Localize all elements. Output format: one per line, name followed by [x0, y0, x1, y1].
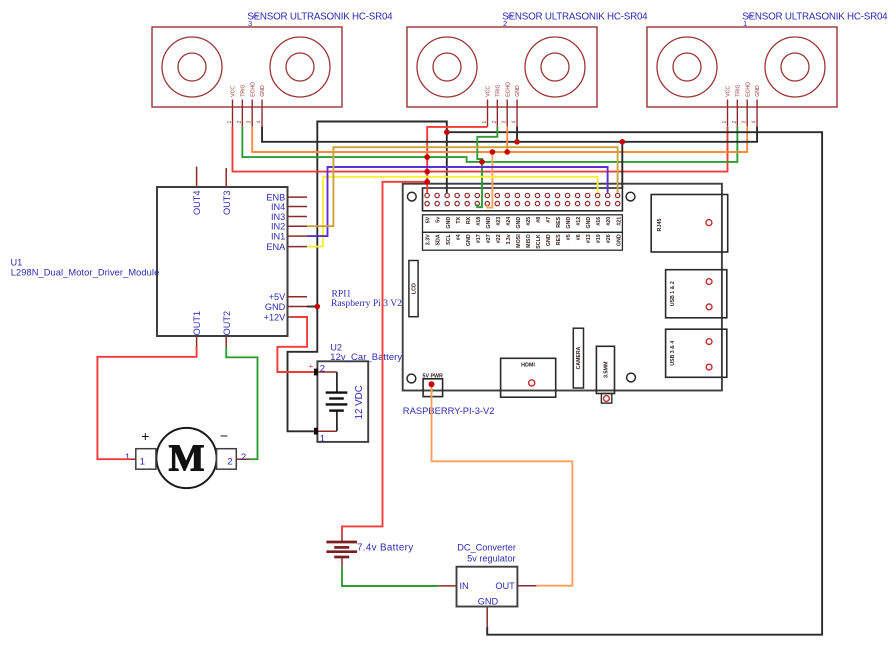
wire sensor2 GND drop: [516, 127, 518, 142]
svg-text:GND: GND: [265, 302, 286, 312]
svg-text:2: 2: [241, 452, 246, 463]
svg-text:#27: #27: [486, 234, 492, 243]
label title S2: [502, 11, 648, 28]
pin +5V of U1: [269, 292, 307, 302]
svg-text:CAMERA: CAMERA: [576, 346, 582, 369]
junction ECHO drop junction: [490, 149, 496, 155]
svg-text:VCC: VCC: [486, 86, 492, 97]
pin IN1 of U1: [271, 231, 307, 241]
svg-text:+12V: +12V: [264, 312, 287, 322]
junction green bus x 5V trunk: [424, 154, 430, 160]
svg-text:USB 1 & 2: USB 1 & 2: [670, 281, 676, 306]
svg-text:#16: #16: [596, 217, 602, 226]
svg-text:ECHO: ECHO: [505, 82, 511, 97]
svg-text:IN2: IN2: [271, 222, 285, 232]
pin 3 ECHO of S1: [742, 82, 752, 127]
svg-text:OUT3: OUT3: [222, 190, 232, 215]
pin 2 TRIG of S1: [732, 84, 742, 126]
svg-text:OUT4: OUT4: [192, 190, 202, 215]
wire salmon DC OUT to 5V PWR: [432, 386, 573, 585]
svg-text:GND: GND: [546, 234, 552, 246]
3.5MM jack: [596, 346, 614, 403]
svg-text:IN: IN: [460, 581, 469, 591]
battery U2 terminal 2 (+): [308, 361, 336, 376]
svg-text:RES: RES: [556, 216, 562, 227]
svg-text:OUT1: OUT1: [192, 311, 202, 336]
svg-text:GND: GND: [466, 234, 472, 246]
svg-text:SDA: SDA: [436, 234, 442, 245]
wire green 7.4v battery to DC IN: [342, 567, 438, 586]
label title S1: [742, 11, 888, 28]
svg-text:HDMI: HDMI: [521, 363, 535, 369]
raspberry pi RPI1 board outline: [403, 184, 722, 391]
svg-text:OUT: OUT: [495, 581, 515, 591]
svg-text:IN4: IN4: [271, 202, 285, 212]
svg-text:ECHO: ECHO: [745, 82, 751, 97]
label DC_Converter: [457, 543, 516, 564]
svg-text:GND: GND: [755, 85, 761, 97]
svg-text:12 VDC: 12 VDC: [354, 385, 365, 419]
5V PWR connector: [423, 373, 443, 396]
pin 1 VCC of S2: [482, 86, 492, 127]
svg-text:VCC: VCC: [726, 86, 732, 97]
ultrasonic sensor S2 (sensor 2): [407, 27, 597, 107]
svg-text:#26: #26: [606, 234, 612, 243]
svg-text:+: +: [308, 361, 313, 371]
svg-text:RJ45: RJ45: [657, 219, 663, 232]
svg-text:SENSOR ULTRASONIK HC-SR04: SENSOR ULTRASONIK HC-SR04: [502, 11, 648, 22]
svg-text:#25: #25: [526, 217, 532, 226]
junction sensor2 GND junction: [514, 139, 520, 145]
motor M1 body: [156, 428, 216, 488]
svg-text:#21: #21: [616, 217, 622, 226]
svg-text:1: 1: [482, 121, 488, 124]
svg-text:ECHO: ECHO: [250, 82, 256, 97]
pin OUT3 of U1: [222, 168, 232, 215]
pin OUT2 of U1: [222, 311, 232, 347]
pin 1 VCC of S1: [722, 86, 732, 127]
wire GND bus drop at header right corner: [621, 142, 623, 188]
svg-text:2: 2: [492, 121, 498, 124]
svg-text:5v: 5v: [436, 217, 442, 223]
pin GND of U1: [265, 302, 307, 312]
svg-text:3: 3: [247, 121, 253, 124]
RJ45 connector: [651, 195, 728, 253]
mounting hole: [626, 192, 635, 201]
wire GND L298N to GPIO header: [317, 122, 447, 307]
svg-text:TRIG: TRIG: [496, 84, 502, 96]
label RASPBERRY-PI-3-V2: [403, 405, 495, 416]
wire purple IN1 to GPIO #20: [307, 167, 608, 236]
wire GND stub black link: [307, 306, 317, 308]
svg-text:#13: #13: [586, 234, 592, 243]
junction TRIG bus junction: [479, 159, 485, 165]
label RPI1: [331, 289, 402, 310]
svg-text:7.4v Battery: 7.4v Battery: [357, 543, 413, 554]
svg-text:2: 2: [503, 19, 507, 28]
wire sensor2 ECHO drop: [506, 127, 508, 152]
pin 4 GND of S2: [511, 85, 521, 127]
junction 5V branch junction: [424, 179, 430, 185]
label 7.4v Battery: [357, 543, 413, 554]
svg-text:1: 1: [320, 434, 325, 445]
wire TRIG green bus sensors1-3: [242, 127, 737, 162]
svg-text:#12: #12: [576, 217, 582, 226]
svg-text:GND: GND: [586, 217, 592, 229]
pin GND of DC converter: [478, 596, 499, 627]
wire ECHO orange bus sensors1-3: [252, 127, 747, 152]
HDMI connector: [501, 358, 556, 397]
svg-text:GND: GND: [566, 217, 572, 229]
pin 2 TRIG of S2: [492, 84, 502, 126]
wire GND L298N down to 12v battery terminal 1: [288, 307, 318, 432]
pin OUT1 of U1: [192, 311, 202, 347]
svg-text:S: S: [506, 14, 512, 18]
svg-text:S: S: [746, 14, 752, 18]
pin ENA of U1: [266, 242, 307, 252]
mounting hole: [407, 192, 416, 201]
pin 3 ECHO of S3: [247, 82, 257, 127]
op-amp U1 L298N module body: [157, 187, 288, 336]
svg-text:+5V: +5V: [269, 292, 286, 302]
wire gold IN2 to GPIO #21: [307, 147, 618, 226]
svg-text:MOSI: MOSI: [516, 234, 522, 248]
svg-text:SENSOR ULTRASONIK HC-SR04: SENSOR ULTRASONIK HC-SR04: [247, 11, 393, 22]
svg-text:TX: TX: [456, 216, 462, 223]
svg-text:USB 3 & 4: USB 3 & 4: [670, 341, 676, 366]
wire yellow ENA to GPIO #16: [307, 177, 598, 247]
svg-text:1: 1: [743, 19, 747, 28]
wire VCC red bus sensors1-3: [233, 127, 728, 172]
wire GND black branch to right rail and DC converter: [447, 132, 822, 635]
svg-text:4: 4: [751, 121, 757, 124]
svg-text:GND: GND: [260, 85, 266, 97]
wire OUT2 to motor terminal 2: [226, 347, 257, 459]
wire orange drop to GPIO #23: [487, 152, 492, 208]
junction U1 GND junction: [315, 304, 321, 310]
svg-text:ENA: ENA: [266, 242, 286, 252]
svg-text:4: 4: [511, 121, 517, 124]
svg-text:#8: #8: [536, 217, 542, 223]
svg-text:#5: #5: [566, 234, 572, 240]
battery U2 plates and 12 VDC label: [326, 372, 365, 431]
svg-text:#22: #22: [496, 234, 502, 243]
pin 1 VCC of S3: [227, 86, 237, 127]
svg-text:5V: 5V: [426, 216, 432, 223]
label U2: [330, 343, 402, 363]
svg-text:IN3: IN3: [271, 212, 285, 222]
svg-text:2: 2: [237, 121, 243, 124]
svg-text:RX: RX: [466, 216, 472, 224]
svg-text:3.3v: 3.3v: [506, 234, 512, 244]
svg-text:#20: #20: [606, 217, 612, 226]
motor terminal 1: [125, 428, 156, 469]
svg-text:SCLK: SCLK: [536, 234, 542, 249]
svg-text:3.5MM: 3.5MM: [603, 361, 609, 378]
svg-text:#17: #17: [476, 234, 482, 243]
svg-text:IN1: IN1: [271, 231, 285, 241]
svg-text:2: 2: [227, 457, 232, 468]
svg-text:#6: #6: [576, 234, 582, 240]
svg-text:1: 1: [125, 452, 130, 463]
svg-text:SENSOR ULTRASONIK HC-SR04: SENSOR ULTRASONIK HC-SR04: [742, 11, 888, 22]
motor terminal 2: [217, 428, 250, 470]
pin IN2 of U1: [271, 222, 307, 232]
pin 3 ECHO of S2: [502, 82, 512, 127]
LCD connector: [409, 261, 418, 317]
junction GND header junction: [620, 139, 626, 145]
node 5V PWR wire end: [429, 381, 435, 387]
pin 2 TRIG of S3: [237, 84, 247, 126]
pin ENB of U1: [266, 192, 307, 202]
wire sensor2 TRIG drop to GPIO #18: [477, 127, 497, 208]
svg-text:#23: #23: [496, 217, 502, 226]
battery 7.4v symbol: [326, 534, 357, 567]
GPIO pin labels row 1: [423, 215, 623, 233]
pin IN of DC converter: [438, 581, 469, 591]
svg-text:+: +: [141, 428, 149, 444]
svg-text:#19: #19: [596, 234, 602, 243]
USB 3 and 4 connector: [666, 329, 727, 377]
svg-text:VCC: VCC: [231, 86, 237, 97]
svg-text:GND: GND: [516, 217, 522, 229]
svg-text:3: 3: [248, 19, 252, 28]
USB 1 and 2 connector: [666, 270, 727, 318]
pin OUT of DC converter: [495, 581, 536, 591]
svg-text:#18: #18: [476, 217, 482, 226]
wire red branch 5V to 7.4v battery: [342, 182, 427, 534]
svg-text:L298N_Dual_Motor_Driver_Module: L298N_Dual_Motor_Driver_Module: [11, 268, 160, 278]
svg-text:TRIG: TRIG: [241, 84, 247, 96]
label U1: [11, 258, 160, 278]
svg-text:Raspberry Pi 3 V2: Raspberry Pi 3 V2: [331, 298, 402, 309]
svg-text:4: 4: [256, 121, 262, 124]
battery U2 terminal 1 (-): [314, 428, 337, 445]
svg-text:3.3V: 3.3V: [426, 234, 432, 245]
svg-text:1: 1: [140, 457, 145, 468]
svg-text:GND: GND: [478, 596, 499, 606]
battery U2 12v car battery body: [317, 361, 368, 442]
svg-text:GND: GND: [616, 234, 622, 246]
GPIO pin labels row 2: [423, 232, 623, 250]
svg-text:5V PWR: 5V PWR: [423, 373, 443, 379]
svg-text:1: 1: [722, 121, 728, 124]
svg-text:TRIG: TRIG: [736, 84, 742, 96]
svg-text:GND: GND: [446, 217, 452, 229]
svg-text:RES: RES: [556, 234, 562, 245]
svg-text:2: 2: [732, 121, 738, 124]
pin IN3 of U1: [271, 212, 307, 222]
ultrasonic sensor S1 (sensor 3): [647, 27, 837, 107]
pin 4 GND of S3: [256, 85, 266, 127]
pin OUT4 of U1: [192, 167, 202, 215]
wire OUT1 to motor terminal 1: [97, 347, 196, 459]
svg-text:#24: #24: [506, 217, 512, 226]
svg-text:DC_Converter: DC_Converter: [457, 543, 516, 553]
mounting hole: [627, 373, 636, 382]
mounting hole: [407, 374, 416, 383]
svg-text:LCD: LCD: [412, 283, 418, 294]
junction VCC bus junction: [424, 169, 430, 175]
svg-text:5v regulator: 5v regulator: [467, 554, 516, 564]
pin 4 GND of S1: [751, 85, 761, 127]
pin +12V of U1: [264, 312, 295, 322]
svg-text:GND: GND: [515, 85, 521, 97]
svg-text:M: M: [169, 438, 205, 480]
junction GND branch junction: [444, 129, 450, 135]
CAMERA connector: [573, 328, 583, 388]
pin IN4 of U1: [271, 202, 307, 212]
GPIO header J1: [423, 188, 623, 211]
svg-text:OUT2: OUT2: [222, 311, 232, 336]
svg-text:MISO: MISO: [526, 234, 532, 248]
svg-text:SCL: SCL: [446, 234, 452, 245]
svg-text:1: 1: [227, 121, 233, 124]
ultrasonic sensor S3 (sensor 1): [152, 27, 342, 107]
label title S3: [247, 11, 393, 28]
svg-text:GND: GND: [486, 217, 492, 229]
svg-text:12v_Car_Battery: 12v_Car_Battery: [330, 351, 402, 362]
wire GND black bus sensors1-3: [262, 127, 757, 142]
svg-text:#7: #7: [546, 217, 552, 223]
svg-text:−: −: [220, 428, 228, 444]
wire +12V L298N to 12v battery terminal 2: [277, 317, 313, 372]
svg-text:3: 3: [502, 121, 508, 124]
DC converter U3 body: [457, 567, 518, 607]
svg-text:S: S: [251, 14, 257, 18]
svg-text:3: 3: [742, 121, 748, 124]
wire sensor2 VCC to 5V trunk: [427, 127, 487, 193]
svg-text:2: 2: [320, 363, 325, 374]
svg-text:RASPBERRY-PI-3-V2: RASPBERRY-PI-3-V2: [403, 405, 495, 416]
svg-text:U1: U1: [11, 258, 23, 268]
junction sensor2 ECHO junction: [504, 149, 510, 155]
svg-text:#4: #4: [456, 234, 462, 240]
